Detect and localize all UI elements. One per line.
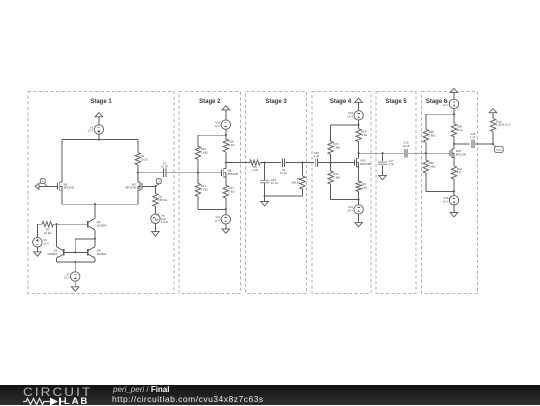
svg-text:BF513B: BF513B (126, 186, 136, 190)
wire R29 down (425, 173, 427, 191)
wire C20 to divider (317, 162, 354, 164)
resistor R24 1M (328, 171, 333, 184)
wire shunt branch down (264, 163, 266, 181)
wire shunt down s5 (382, 153, 384, 161)
resistor R27 1k (356, 181, 361, 191)
power flag at output (489, 109, 497, 113)
ground below V5 (34, 252, 42, 256)
svg-text:2N3904: 2N3904 (47, 252, 57, 256)
wire R27 down (358, 191, 360, 199)
wire Zin to Vin (154, 206, 156, 214)
wire V7 to ground (74, 281, 76, 287)
wire node B left (75, 238, 95, 240)
svg-text:Vout: Vout (496, 148, 501, 152)
wire shunt cap to ground s5 (382, 165, 384, 175)
wire output node up to Zout (492, 132, 494, 144)
wire output s4 to s5 (359, 152, 383, 154)
wire bottom left to center s4 (331, 199, 359, 201)
svg-text:3 nF: 3 nF (388, 162, 394, 166)
wire node A to Q2 base (53, 223, 88, 225)
node bottom junction s2 (225, 208, 227, 210)
svg-text:40 Ω: 40 Ω (457, 128, 463, 132)
wire Q3 collector up to node A (56, 224, 58, 247)
wire R30 to drain node (453, 137, 455, 144)
svg-text:BF513B: BF513B (360, 162, 370, 166)
wire right node down to R6 (302, 163, 304, 177)
node A bias junction (55, 223, 57, 225)
voltage source V26 12V (449, 99, 458, 108)
transistor M15 BF513B (449, 150, 451, 156)
wire Q4 emitter down (94, 258, 96, 262)
wire V5 to ground (36, 247, 38, 252)
node bottom junction s4 (358, 198, 360, 200)
svg-text:1 uF: 1 uF (470, 135, 476, 139)
wire input to M1 gate (39, 185, 58, 187)
wire V26 down (453, 109, 455, 124)
node output junction (492, 143, 494, 145)
wire V1 to top rail (98, 134, 100, 139)
wire R2 to drain node (137, 165, 139, 173)
wire drain node to M2 (137, 173, 139, 182)
wire V19 down (358, 120, 360, 129)
node M2 gate junction (154, 185, 156, 187)
node B mirror junction (94, 238, 96, 240)
svg-text:12 V: 12 V (214, 219, 220, 223)
voltage source V7 12V (71, 272, 80, 281)
ground below V21 (355, 222, 363, 226)
resistor R23 1M (328, 141, 333, 154)
wire Q2 emitter down (94, 230, 96, 239)
svg-text:12 V: 12 V (347, 115, 353, 119)
transistor M8 BF513B (221, 170, 223, 176)
voltage source V11 12V (221, 215, 230, 224)
node drain junction s4 (358, 152, 360, 154)
wire M2 source down (137, 191, 139, 205)
svg-text:500 kΩ: 500 kΩ (291, 180, 300, 184)
wire bottom left to center s6 (426, 190, 454, 192)
wire R23 to gate line (330, 154, 332, 162)
stage 3 boundary box (246, 92, 307, 294)
wire R7 left lead (37, 223, 42, 225)
svg-text:1 kΩ: 1 kΩ (229, 189, 235, 193)
svg-text:BF513B: BF513B (456, 153, 466, 157)
resistor R28 1M (423, 129, 428, 142)
transistor Q4 2N3904 (87, 249, 89, 255)
wire tail rail (62, 203, 138, 205)
capacitor C25 1uF (471, 140, 473, 149)
wire gate line to R24 (330, 163, 332, 172)
wire base rail (64, 251, 88, 253)
power flag stage 6 (450, 88, 458, 92)
wire to V21 (358, 200, 360, 205)
node drain junction s6 (453, 143, 455, 145)
resistor R5 1k (250, 160, 260, 165)
resistor R29 1M (423, 160, 428, 173)
wire down to V7 (74, 262, 76, 272)
capacitor C1 10uF (163, 168, 165, 177)
node filter right junction (301, 162, 303, 164)
svg-text:1 MΩ: 1 MΩ (333, 175, 340, 179)
voltage source V28 12V (449, 196, 458, 205)
wire C18 to stage 6 (408, 152, 449, 154)
svg-text:1.000e+2 Ω: 1.000e+2 Ω (496, 123, 511, 127)
transistor Q3 2N3904 (63, 249, 65, 255)
wire left rail to R28 (425, 114, 427, 129)
voltage source V10 12V (221, 120, 230, 129)
svg-text:10 nF: 10 nF (271, 181, 278, 185)
ground stage 5 (379, 175, 387, 179)
wire drain node to M11 (358, 153, 360, 158)
wire Zout to power flag (492, 113, 494, 119)
wire V10 down (225, 129, 227, 139)
wire V11 to ground (225, 224, 227, 229)
wire gate line to R14 (197, 173, 199, 184)
node tail junction (94, 203, 96, 205)
svg-text:1 MΩ: 1 MΩ (429, 164, 436, 168)
wire M15 source down (453, 158, 455, 166)
resistor R14 1M (195, 183, 200, 196)
capacitor C20 1uF (314, 158, 316, 167)
node emitter rail junction (74, 261, 76, 263)
node base rail junction (74, 251, 76, 253)
svg-text:Stage 3: Stage 3 (265, 99, 287, 105)
wire supply to left rail (198, 134, 226, 136)
wire gate line to R29 (425, 153, 427, 160)
wire R17 down (225, 198, 227, 209)
svg-text:Stage 5: Stage 5 (385, 99, 407, 105)
net flag at M2 gate (155, 183, 160, 186)
net flag at input (44, 183, 47, 186)
wire M2 gate right (142, 185, 155, 187)
svg-text:1 kHz: 1 kHz (161, 220, 169, 224)
svg-text:10 uF: 10 uF (402, 144, 409, 148)
input port flag (35, 183, 39, 189)
node bottom junction s6 (453, 190, 455, 192)
svg-text:12 V: 12 V (88, 129, 94, 133)
wire R28 to gate line (425, 142, 427, 153)
wire gate node to Zin (154, 186, 156, 193)
transistor M11 BF513B (353, 160, 355, 166)
wire to V11 (225, 209, 227, 214)
svg-text:Stage 4: Stage 4 (330, 99, 352, 105)
wire output s2 to s3 (226, 162, 250, 164)
wire R24 down (330, 184, 332, 199)
svg-text:22 kΩ: 22 kΩ (44, 231, 51, 235)
wire drain node to M8 drain (225, 163, 227, 169)
wire Q4 collector up to node B (94, 239, 96, 247)
ground below V7 (71, 287, 79, 291)
flag Vout (493, 144, 495, 147)
wire Q2 collector up (94, 204, 96, 218)
svg-text:5 kΩ: 5 kΩ (361, 133, 367, 137)
resistor R7 22k (42, 222, 53, 227)
capacitor C17 3nF (378, 161, 387, 163)
svg-text:12 V: 12 V (43, 242, 49, 246)
wire supply left s6 (426, 113, 454, 115)
wire M1 source down (61, 191, 63, 205)
wire to V5 (36, 224, 38, 237)
ground below V11 (222, 229, 230, 233)
node supply junction s4 (358, 124, 360, 126)
wire R14 down (197, 196, 199, 209)
node divider junction s2 (197, 172, 199, 174)
resistor R6 500k (300, 176, 305, 189)
wire left rail to R15 (197, 135, 199, 146)
svg-text:150 Ω: 150 Ω (141, 158, 149, 162)
svg-text:1 MΩ: 1 MΩ (429, 133, 436, 137)
wire V21 to ground (358, 214, 360, 222)
svg-text:12 V: 12 V (443, 200, 449, 204)
wire supply left s4 (331, 124, 359, 126)
voltage source V5 12V (33, 238, 42, 247)
wire Vin to ground (154, 224, 156, 232)
node top rail junction (98, 139, 100, 141)
capacitor C18 10uF (404, 149, 406, 158)
svg-text:12 V: 12 V (347, 209, 353, 213)
power flag stage 2 (222, 106, 230, 110)
wire drain node to M15 (453, 144, 455, 149)
wire left rail to M1 drain (61, 140, 63, 182)
node bottom left junction s3 (264, 195, 266, 197)
svg-text:12 V: 12 V (64, 276, 70, 280)
node stage2 supply junction (225, 134, 227, 136)
wire R16 to drain node (225, 152, 227, 163)
wire M8 source down (225, 177, 227, 185)
svg-text:2N3904: 2N3904 (97, 224, 107, 228)
power flag stage 4 (355, 98, 363, 102)
wire R5 to C9 (260, 162, 281, 164)
resistor Zout 100 (490, 119, 495, 132)
transistor M1 BF513B (57, 183, 59, 189)
wire drain to C25 (454, 143, 470, 145)
resistor R2 150 (135, 153, 140, 165)
wire left rail to R23 (330, 125, 332, 141)
resistor R26 5k (356, 129, 361, 142)
wire to V28 (453, 191, 455, 195)
svg-text:1 kΩ: 1 kΩ (252, 168, 258, 172)
svg-text:1 uF: 1 uF (313, 154, 319, 158)
wire drain node to C1 (138, 172, 164, 174)
transistor M2 BF513B (141, 183, 143, 189)
stage 4 boundary box (312, 92, 371, 294)
ground below V28 (450, 213, 458, 217)
svg-text:12 V: 12 V (214, 124, 220, 128)
wire R26 to drain node (358, 142, 360, 154)
node divider junction s6 (425, 152, 427, 154)
wire right rail to R2 (137, 140, 139, 153)
ground stage 3 (261, 202, 269, 206)
node divider junction s4 (330, 162, 332, 164)
resistor R31 4 (451, 166, 456, 179)
voltage source V21 12V (354, 205, 363, 214)
svg-text:10 uF: 10 uF (161, 165, 168, 169)
wire Q3 emitter down (56, 258, 58, 262)
node drain junction s2 (225, 162, 227, 164)
svg-text:27 nF: 27 nF (280, 171, 287, 175)
svg-text:250 kΩ: 250 kΩ (158, 198, 167, 202)
node filter left junction (264, 162, 266, 164)
resistor R17 1k (223, 185, 228, 198)
wire C25 to output node (475, 143, 493, 145)
resistor R16 5k (223, 139, 228, 152)
svg-text:12 V: 12 V (443, 103, 449, 107)
svg-text:4 Ω: 4 Ω (457, 170, 461, 174)
svg-text:1 MΩ: 1 MΩ (333, 145, 340, 149)
stage 2 boundary box (179, 92, 241, 294)
transistor Q2 2N3904 (87, 221, 89, 227)
wire emitter rail (57, 261, 95, 263)
source Vin sine 1kHz (151, 214, 160, 223)
stage 6 boundary box (422, 92, 478, 294)
svg-text:Stage 2: Stage 2 (199, 99, 221, 105)
svg-text:BF513B: BF513B (64, 186, 74, 190)
svg-text:1 kΩ: 1 kΩ (361, 185, 367, 189)
stage 1 boundary box (28, 92, 174, 294)
wire shunt cap to bottom (264, 183, 266, 196)
wire bottom left to center s2 (198, 208, 226, 210)
wire C9 right (286, 162, 315, 164)
svg-text:2N3904: 2N3904 (97, 252, 107, 256)
svg-text:5 kΩ: 5 kΩ (229, 143, 235, 147)
svg-text:1 MΩ: 1 MΩ (201, 151, 208, 155)
stage 5 boundary box (376, 92, 416, 294)
node supply junction s6 (453, 113, 455, 115)
svg-text:1 MΩ: 1 MΩ (201, 188, 208, 192)
voltage source V1 12V (94, 125, 103, 134)
node M2 drain junction (137, 172, 139, 174)
wire bottom rail s3 (265, 195, 303, 197)
node shunt junction s5 (381, 152, 383, 154)
resistor R15 1M (195, 146, 200, 159)
capacitor C9 27nF (281, 158, 283, 167)
wire C1 to stage 2 gate (166, 172, 222, 174)
resistor Zin 250k (153, 193, 158, 206)
power flag stage 1 (95, 113, 103, 117)
wire R15 to gate line (197, 159, 199, 172)
svg-text:BF513B: BF513B (228, 172, 238, 176)
wire s5 line (383, 152, 404, 154)
wire down to base rail (74, 239, 76, 253)
voltage source V19 12V (354, 111, 363, 120)
wire R31 down (453, 179, 455, 191)
wire V28 to ground (453, 205, 455, 213)
wire top rail (62, 139, 138, 141)
svg-text:Stage 1: Stage 1 (90, 99, 112, 105)
ground below Vin (152, 232, 160, 236)
resistor R30 40 (451, 124, 456, 137)
capacitor C10 10nF (260, 180, 269, 182)
wire M11 source down (358, 167, 360, 181)
wire R6 to bottom rail (302, 189, 304, 196)
